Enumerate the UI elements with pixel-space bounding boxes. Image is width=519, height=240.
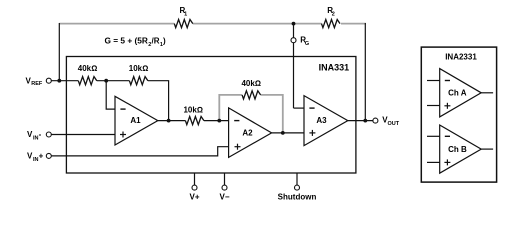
resistor R2 [322, 6, 341, 28]
wire 10k to A1 output node [148, 81, 169, 121]
svg-text:Ch A: Ch A [448, 89, 467, 98]
svg-text:-: - [39, 130, 42, 139]
svg-text:V+: V+ [189, 193, 199, 202]
svg-text:2: 2 [332, 12, 335, 18]
svg-text:Shutdown: Shutdown [278, 193, 317, 202]
node A2 output junction [281, 131, 285, 135]
svg-text:G: G [305, 41, 309, 47]
svg-text:A1: A1 [130, 116, 141, 125]
op-amp A1 [115, 96, 158, 145]
terminal VIN- [27, 130, 51, 142]
wire right feedback vertical to output [364, 23, 366, 121]
resistor 10k feedback A1 [129, 64, 149, 85]
wire A1 output to 10k [158, 120, 186, 122]
wire A3 output to VOUT [348, 120, 373, 122]
wire top feedback horizontal (gray) [59, 23, 366, 25]
resistor 10k series [183, 106, 203, 125]
svg-text:A3: A3 [316, 116, 327, 125]
pin V- [219, 173, 229, 202]
op-amp A3 [304, 96, 348, 146]
svg-text:10kΩ: 10kΩ [129, 64, 149, 73]
pin V+ [189, 173, 199, 202]
wire A2 feedback loop (gray) [219, 95, 282, 133]
wire VREF to 40k [51, 80, 78, 82]
op-amp A2 [229, 108, 272, 157]
svg-text:1: 1 [184, 12, 187, 18]
svg-text:INA2331: INA2331 [445, 53, 477, 62]
svg-text:10kΩ: 10kΩ [183, 106, 203, 115]
node A1 output junction [167, 119, 171, 123]
svg-text:40kΩ: 40kΩ [241, 79, 261, 88]
terminal VOUT [373, 116, 400, 127]
svg-text:): ) [163, 37, 166, 46]
svg-text:/R: /R [152, 37, 160, 46]
resistor R1 [174, 6, 193, 28]
wire 10k to A2 inverting input [204, 120, 229, 122]
svg-text:REF: REF [31, 81, 43, 87]
op-amp Ch A [427, 69, 493, 117]
terminal VREF [26, 76, 52, 87]
wire 40k to 10k [97, 80, 130, 82]
terminal RG [291, 24, 309, 109]
svg-text:40kΩ: 40kΩ [78, 64, 98, 73]
resistor 40k input [78, 64, 98, 85]
svg-text:OUT: OUT [388, 121, 400, 127]
node VOUT junction [363, 119, 367, 123]
wire node to A1 inverting input [106, 81, 115, 109]
node A2 inverting junction [217, 119, 221, 123]
svg-text:INA331: INA331 [319, 63, 350, 73]
IC box INA2331 [421, 47, 496, 182]
resistor 40k feedback A2 [241, 79, 261, 99]
svg-text:+: + [39, 152, 44, 161]
svg-text:A2: A2 [242, 129, 253, 138]
terminal VIN+ [27, 152, 51, 164]
node RG junction on top wire [292, 22, 296, 26]
pin Shutdown [278, 173, 317, 202]
svg-text:V−: V− [219, 193, 229, 202]
IC box INA331 [66, 57, 356, 174]
svg-text:Ch B: Ch B [448, 145, 467, 154]
op-amp Ch B [427, 125, 493, 173]
wire VIN+ to A2 non-inverting input [51, 147, 228, 156]
node VREF feedback junction [57, 79, 61, 83]
wire A2 output to A3 non-inverting input [272, 132, 304, 134]
node A1 inverting junction [104, 79, 108, 83]
wire RG to A3 inverting input [294, 107, 305, 109]
wire VIN- to A1 non-inverting input [51, 134, 115, 136]
svg-text:G = 5 + (5R: G = 5 + (5R [105, 37, 149, 46]
wire left feedback vertical [58, 23, 60, 81]
